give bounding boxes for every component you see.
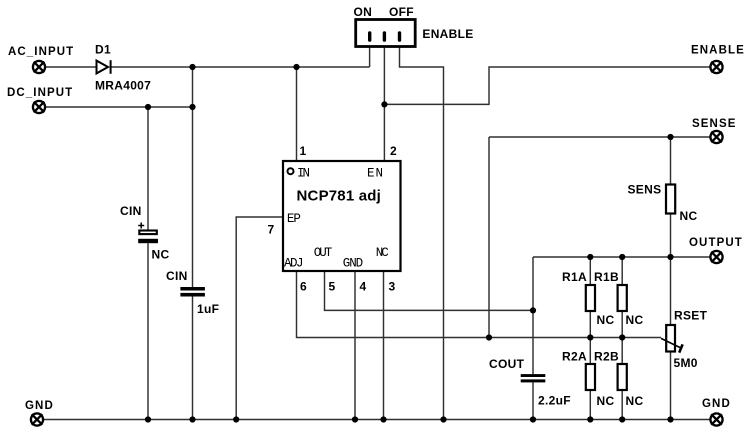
terminal ENABLE [710, 61, 722, 73]
wire ENABLE net from jumper pin2 junction to ENABLE terminal [384, 67, 710, 104]
junction AC net x192 [189, 64, 195, 70]
svg-text:1: 1 [300, 144, 307, 158]
svg-text:MRA4007: MRA4007 [95, 79, 151, 93]
svg-text:R2B: R2B [594, 350, 619, 364]
op-amp U1 NCP781 body [283, 161, 401, 271]
terminal SENSE [710, 131, 722, 143]
svg-text:COUT: COUT [489, 357, 525, 371]
svg-text:R1B: R1B [594, 270, 619, 284]
svg-text:OUT: OUT [314, 246, 333, 260]
svg-text:ENABLE: ENABLE [691, 45, 745, 57]
svg-text:CIN: CIN [120, 204, 142, 218]
svg-text:OFF: OFF [389, 5, 414, 19]
terminal OUTPUT [710, 251, 722, 263]
wire D1 cathode to jumper pin1 (net across top) [111, 66, 370, 68]
wire AC_INPUT to D1 anode [46, 66, 97, 68]
svg-text:1uF: 1uF [197, 302, 219, 316]
terminal DC_INPUT [33, 101, 45, 113]
wire ADJ pin 6 down and ADJ mid rail [297, 271, 662, 338]
wire EP pin 7 to GND [236, 217, 283, 420]
wire R1B bottom lead [621, 312, 623, 338]
junction GND rail at EP [233, 416, 239, 422]
wire SENSE net vertical drop to ADJ rail [488, 137, 490, 338]
capacitor CIN 1uF [180, 287, 205, 297]
wire jumper pin3 drop [400, 47, 444, 420]
svg-text:5M0: 5M0 [674, 356, 698, 370]
svg-text:NC: NC [680, 209, 698, 223]
svg-text:5: 5 [329, 280, 336, 294]
svg-text:6: 6 [300, 280, 307, 294]
wire RSET top lead [670, 257, 672, 325]
svg-text:ADJ: ADJ [284, 257, 304, 271]
wire jumper pin2 drop to IC pin 2 EN [383, 47, 385, 161]
svg-text:DC_INPUT: DC_INPUT [7, 87, 73, 99]
wire R1B top lead [621, 257, 623, 285]
wire IN pin column (AC net down to IC pin 1) [296, 67, 298, 161]
junction OUTPUT rail at R1A [587, 254, 593, 260]
junction GND rail at COUT [530, 416, 536, 422]
svg-text:ON: ON [354, 5, 373, 19]
svg-text:GND: GND [25, 400, 54, 412]
junction AC net x296.5 [293, 64, 299, 70]
svg-text:AC_INPUT: AC_INPUT [8, 46, 74, 58]
junction GND rail at pin4 [352, 416, 358, 422]
junction GND rail at CIN 1uF [189, 416, 195, 422]
junction GND rail at R2B [619, 416, 625, 422]
junction ADJ rail at SENSE drop [486, 334, 492, 340]
svg-text:SENSE: SENSE [692, 118, 737, 130]
junction GND rail at pin3 [380, 416, 386, 422]
svg-text:7: 7 [268, 223, 275, 237]
svg-text:EP: EP [287, 212, 301, 226]
wire COUT column bottom (COUT to GND rail) [532, 382, 534, 419]
wire DC_INPUT horizontal [46, 106, 193, 108]
junction OUTPUT rail at RSET [667, 254, 673, 260]
wire R1A top lead [589, 257, 591, 285]
wire R2A bottom lead [589, 391, 591, 420]
svg-text:4: 4 [360, 280, 367, 294]
capacitor CIN polarized [138, 223, 158, 244]
wire GND bottom rail [44, 419, 710, 421]
svg-text:NCP781 adj: NCP781 adj [297, 188, 382, 205]
junction ADJ rail at R1B/R2B [619, 334, 625, 340]
svg-text:GND: GND [702, 398, 731, 410]
capacitor COUT 2.2uF [521, 374, 546, 382]
svg-text:SENS: SENS [628, 183, 662, 197]
svg-text:NC: NC [152, 248, 170, 262]
svg-text:D1: D1 [95, 43, 111, 57]
wire R2A top lead [589, 338, 591, 364]
svg-text:NC: NC [597, 394, 615, 408]
junction DC net x192 [189, 104, 195, 110]
junction ADJ rail at R1A/R2A [587, 334, 593, 340]
junction ENABLE net at jumper pin2 [381, 101, 387, 107]
junction GND rail at jumper OFF column [440, 416, 446, 422]
resistor R1A [586, 285, 595, 311]
jumper block ON/OFF [356, 20, 416, 47]
svg-text:EN: EN [367, 167, 383, 181]
resistor R2A [586, 364, 595, 390]
wire vertical x192 top (AC junction down to CIN 1uF) [192, 67, 194, 287]
terminal AC_INPUT [33, 61, 45, 73]
junction DC net x148 [145, 104, 151, 110]
wire OUTPUT rail [533, 256, 710, 258]
wire vertical x148 top (DC junction to CIN+ cap) [147, 107, 149, 231]
junction OUT wire at COUT column [530, 307, 536, 313]
wire SENS resistor top lead [670, 137, 672, 184]
wire COUT column top (OUTPUT rail down to COUT) [532, 257, 534, 374]
svg-text:NC: NC [626, 394, 644, 408]
svg-text:CIN: CIN [166, 269, 188, 283]
resistor R1B [618, 285, 627, 311]
svg-text:NC: NC [597, 313, 615, 327]
svg-text:3: 3 [389, 280, 396, 294]
junction OUTPUT rail at R1B [619, 254, 625, 260]
wire NC pin 3 drop [383, 271, 385, 420]
terminal GND left [31, 413, 43, 425]
svg-text:R2A: R2A [562, 350, 587, 364]
svg-text:GND: GND [343, 257, 364, 271]
wire OUT pin 5 to OUTPUT column [325, 271, 534, 310]
wire RSET bottom lead [670, 352, 672, 420]
wire vertical x192 bottom (CIN 1uF to GND rail) [192, 297, 194, 420]
wire R2B top lead [621, 338, 623, 364]
diode D1 [97, 60, 111, 74]
svg-text:OUTPUT: OUTPUT [689, 237, 743, 249]
junction SENSE net at SENS resistor [667, 134, 673, 140]
svg-text:NC: NC [626, 313, 644, 327]
wire R2B bottom lead [621, 391, 623, 420]
wire SENS resistor bottom lead to OUTPUT rail [670, 214, 672, 257]
wire R1A bottom lead [589, 312, 591, 338]
terminal GND right [710, 413, 722, 425]
svg-text:2: 2 [390, 144, 397, 158]
wire vertical x148 bottom (CIN+ cap to GND rail) [147, 243, 149, 419]
resistor R2B [618, 364, 627, 390]
junction GND rail at RSET [667, 416, 673, 422]
svg-text:RSET: RSET [674, 309, 708, 323]
junction GND rail at CIN+ [145, 416, 151, 422]
wire SENSE net horizontal [489, 136, 710, 138]
svg-text:R1A: R1A [562, 270, 587, 284]
svg-text:2.2uF: 2.2uF [538, 394, 571, 408]
resistor SENS [666, 185, 675, 214]
svg-text:ENABLE: ENABLE [422, 27, 473, 41]
wire jumper pin1 drop [369, 47, 371, 67]
svg-text:NC: NC [376, 246, 389, 260]
svg-text:IN: IN [297, 167, 310, 181]
junction GND rail at R2A [587, 416, 593, 422]
potentiometer RSET [661, 325, 683, 353]
wire GND pin 4 drop [354, 271, 356, 420]
